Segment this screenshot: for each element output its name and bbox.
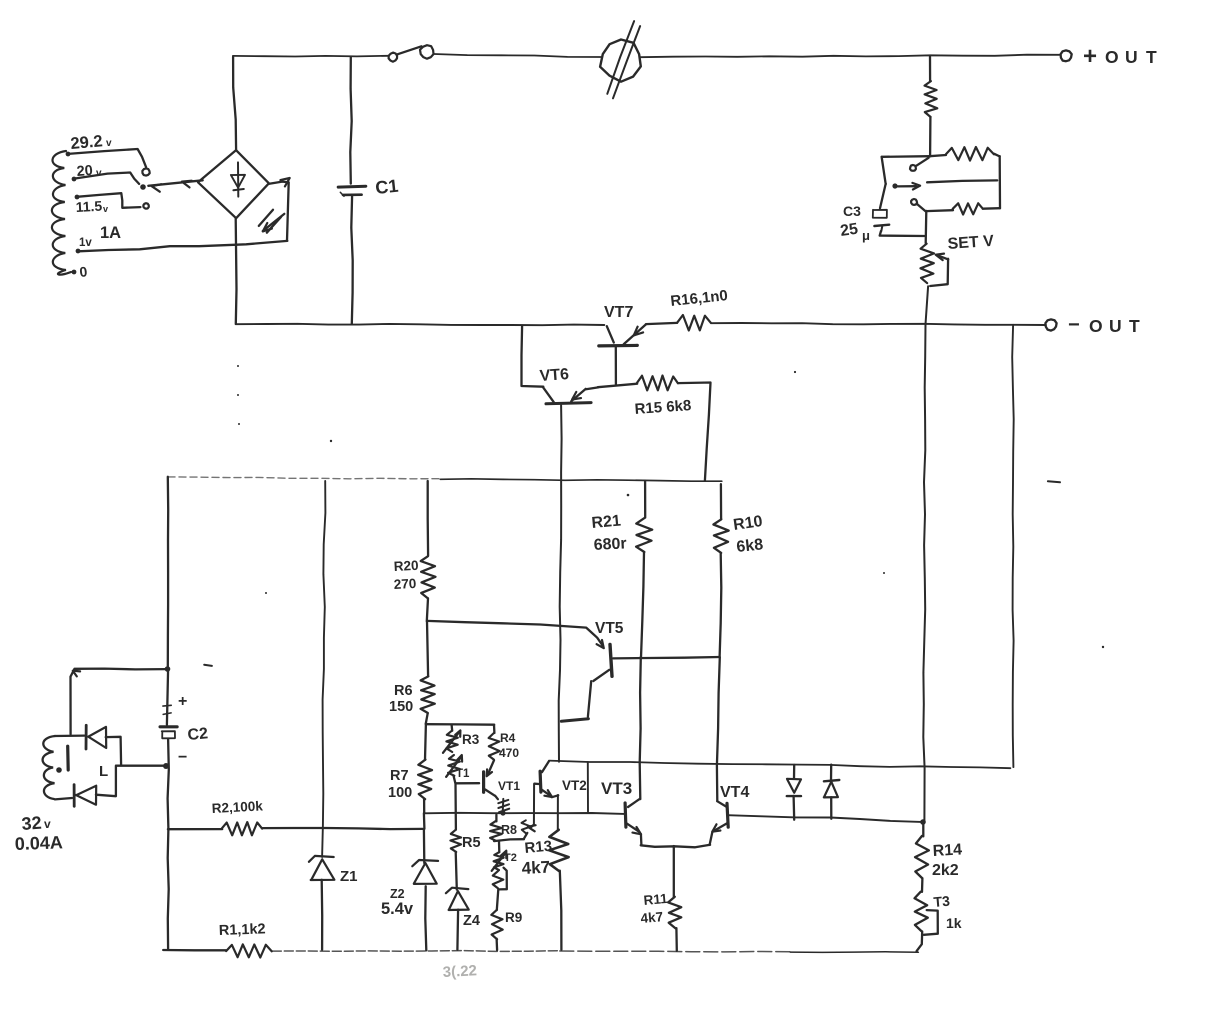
svg-text:Z1: Z1	[340, 868, 358, 885]
label + OUT	[1083, 43, 1157, 70]
svg-text:U: U	[1109, 316, 1122, 336]
zener Z2	[412, 813, 438, 950]
label VT5	[595, 620, 624, 637]
diode D1 (aux)	[55, 725, 121, 765]
label 0.04A	[14, 832, 63, 854]
svg-text:R11: R11	[643, 891, 669, 908]
resistor R15	[637, 376, 678, 391]
wire aux top	[71, 666, 171, 734]
svg-text:20: 20	[76, 163, 93, 180]
wire VT6 collector from -rail	[522, 326, 544, 387]
wire R6 to R3/R4 node	[426, 723, 494, 726]
svg-text:VT4: VT4	[720, 784, 749, 801]
svg-text:100: 100	[388, 785, 412, 801]
label Z4	[463, 913, 480, 929]
terminal -OUT	[1045, 319, 1056, 330]
VT3 base bus (line1)	[424, 813, 624, 814]
svg-text:R14: R14	[932, 841, 962, 860]
wire R21 to VT3 collector	[640, 657, 641, 799]
VT4 base bus to R14	[728, 815, 926, 825]
svg-text:v: v	[44, 817, 51, 831]
label R16 1n0	[670, 287, 729, 310]
capacitor C3	[873, 184, 925, 236]
wire bridge top to +rail	[233, 57, 236, 150]
resistor range-low	[926, 203, 1000, 214]
diode D2 (aux)	[55, 766, 116, 807]
wire R10 to VT4 collector	[717, 657, 720, 801]
R8 wiper to VT2 base	[522, 784, 536, 839]
svg-text:+: +	[1083, 43, 1097, 70]
svg-text:C3: C3	[843, 203, 861, 219]
svg-text:R9: R9	[505, 910, 522, 925]
diode D4	[824, 765, 840, 819]
inductor L winding	[43, 736, 55, 799]
resistor range-high	[930, 147, 1000, 161]
svg-text:0.04A: 0.04A	[14, 832, 63, 854]
svg-text:11.5: 11.5	[75, 198, 102, 215]
wire VT6 base down to VT5 emitter	[559, 405, 562, 761]
resistor R2	[168, 822, 423, 835]
resistor R4	[489, 725, 500, 760]
label R13 4k7	[521, 838, 553, 878]
thermistor R3	[443, 725, 460, 753]
upper bus (dashed faint left part)	[168, 477, 722, 481]
T2 lower section and bracket	[493, 868, 507, 890]
tap 29.2v (dot, wire, contact)	[66, 149, 150, 176]
svg-text:R1,1k2: R1,1k2	[219, 921, 266, 939]
label R11 4k7	[640, 891, 669, 926]
label C1	[374, 176, 399, 198]
label T2	[504, 852, 517, 864]
svg-text:C2: C2	[187, 725, 209, 744]
label VT1	[498, 779, 520, 793]
label R6 150	[389, 683, 413, 715]
diode D3	[787, 765, 801, 820]
AC select arrow marks	[259, 210, 285, 233]
wire selector to SET V	[925, 211, 928, 243]
label Z2 5.4v	[381, 887, 414, 918]
wire T1/R5/VT1-base node	[454, 776, 480, 830]
wire bus to VT3 base bus	[587, 762, 589, 812]
wire bridge AC-left to tap contact (arrows)	[148, 180, 202, 191]
svg-text:−: −	[178, 749, 187, 766]
faint pencil note	[442, 962, 477, 981]
resistor R7	[418, 724, 432, 813]
label C3	[843, 203, 861, 219]
svg-text:T: T	[1146, 47, 1157, 67]
series resistor (top right)	[925, 81, 938, 117]
stray dash	[204, 665, 212, 666]
transistor VT7	[599, 324, 646, 346]
label 11.5v	[75, 198, 108, 215]
rheostat T2	[492, 841, 507, 871]
wire +rail to series resistor	[929, 57, 931, 81]
svg-text:6k8: 6k8	[736, 536, 764, 556]
label SET V	[947, 233, 995, 253]
svg-text:150: 150	[389, 699, 413, 715]
svg-text:VT2: VT2	[562, 778, 587, 793]
resistor R11	[668, 846, 681, 951]
wire R15 to upper bus	[678, 383, 711, 481]
wire bridge bottom to -rail	[235, 218, 238, 323]
transistor VT4	[710, 801, 729, 845]
label VT4	[720, 784, 749, 801]
transistor VT6	[543, 387, 598, 404]
resistor R10	[713, 484, 728, 657]
capacitor C2	[160, 669, 177, 949]
svg-text:v: v	[103, 204, 108, 214]
svg-text:470: 470	[499, 746, 519, 760]
resistor R21	[636, 481, 652, 658]
svg-text:29.2: 29.2	[70, 132, 104, 153]
zener Z4	[446, 888, 469, 950]
svg-text:R7: R7	[390, 768, 409, 784]
tap 0 (dot and hook)	[72, 270, 77, 275]
svg-text:680r: 680r	[593, 535, 627, 554]
svg-text:+: +	[178, 693, 187, 710]
svg-text:Z2: Z2	[390, 887, 405, 901]
tick mark (minus)	[1048, 481, 1060, 482]
label 1A	[100, 224, 121, 242]
wire VT7 base	[615, 347, 617, 385]
svg-text:1v: 1v	[79, 237, 92, 249]
label T1	[456, 768, 470, 780]
common emitter wire	[641, 845, 710, 848]
transistor VT1	[484, 760, 495, 796]
label T3 1k	[933, 893, 962, 931]
zener Z3 scribble	[495, 796, 509, 816]
tap 20v (dot, wire, contact)	[72, 173, 146, 190]
label R14 2k2	[932, 841, 963, 879]
svg-text:R21: R21	[591, 512, 622, 532]
label C2 minus	[178, 749, 187, 766]
-OUT rail right	[711, 323, 1046, 325]
svg-text:R5: R5	[462, 835, 481, 851]
svg-text:v: v	[106, 138, 112, 149]
VT2 collector bus	[549, 761, 1011, 769]
wire bridge AC-right riser with arrow	[269, 178, 289, 241]
svg-text:VT5: VT5	[595, 620, 624, 637]
svg-text:1k: 1k	[946, 915, 962, 931]
svg-text:1A: 1A	[100, 224, 121, 242]
svg-text:3(.22: 3(.22	[442, 962, 477, 981]
label C2	[187, 725, 209, 744]
svg-text:T2: T2	[504, 852, 517, 864]
label 25u	[839, 221, 870, 243]
svg-text:4k7: 4k7	[521, 858, 550, 878]
transistor VT3	[625, 799, 641, 845]
label 0	[79, 263, 89, 280]
svg-text:−: −	[1068, 314, 1080, 336]
label R9	[505, 910, 522, 925]
svg-text:VT1: VT1	[498, 779, 520, 793]
wire VT6 emitter / VT7 base node	[598, 384, 637, 388]
label R10 6k8	[732, 513, 764, 556]
label Z1	[340, 868, 358, 885]
wire SET V wiper to lower net	[923, 286, 928, 820]
label 1v	[79, 237, 92, 249]
svg-text:O: O	[1089, 316, 1103, 336]
wire VT5 collector	[613, 657, 719, 658]
svg-text:R6: R6	[394, 683, 413, 699]
resistor R20	[421, 481, 436, 621]
thermistor T1	[446, 755, 462, 777]
tap 11.5v (dot, wire, contact)	[75, 193, 149, 209]
label C2 plus	[178, 693, 187, 710]
core bar and tap dot	[56, 746, 68, 773]
svg-text:R2,100k: R2,100k	[211, 798, 263, 816]
label R5	[462, 835, 481, 851]
svg-text:32: 32	[21, 813, 42, 834]
wire resistor to selector	[929, 117, 932, 156]
svg-text:L: L	[99, 763, 108, 780]
svg-text:270: 270	[393, 576, 416, 592]
svg-text:R3: R3	[462, 732, 480, 747]
label L	[99, 763, 108, 780]
label 29.2v	[70, 132, 112, 153]
resistor R14	[915, 822, 929, 892]
svg-text:C1: C1	[374, 176, 399, 198]
label R4 470	[499, 731, 519, 760]
svg-text:VT7: VT7	[604, 304, 633, 321]
terminal +OUT	[1061, 50, 1072, 61]
transistor VT2	[534, 761, 558, 797]
svg-text:U: U	[1125, 47, 1138, 67]
label - OUT	[1068, 314, 1140, 336]
label VT2	[562, 778, 587, 793]
label VT3	[601, 779, 632, 798]
+OUT rail segment A	[233, 55, 388, 58]
rheostat T3	[915, 892, 938, 951]
label R20 270	[393, 558, 419, 592]
potentiometer SET V	[921, 244, 949, 286]
svg-text:4k7: 4k7	[640, 909, 664, 926]
svg-text:VT6: VT6	[539, 366, 570, 385]
svg-text:O: O	[1105, 47, 1119, 67]
label R7 100	[388, 768, 412, 801]
resistor R9	[491, 889, 502, 950]
label 32v	[21, 813, 51, 834]
resistor R5	[450, 830, 461, 890]
label R1 1k2	[219, 921, 266, 939]
svg-text:VT3: VT3	[601, 779, 632, 798]
svg-text:Z4: Z4	[463, 913, 480, 929]
resistor R6	[421, 621, 435, 724]
resistor R16	[646, 315, 711, 331]
svg-text:SET V: SET V	[947, 233, 995, 253]
label R8	[501, 823, 517, 837]
switch S1	[389, 45, 434, 62]
fuse F1	[600, 21, 641, 98]
wire left column top	[167, 477, 170, 668]
wire -OUT rail to diode net	[1012, 325, 1014, 767]
label VT7	[604, 304, 633, 321]
label R15 6k8	[634, 397, 692, 418]
svg-text:μ: μ	[862, 228, 870, 243]
bridge rectifier diamond	[198, 150, 269, 218]
range selector switch	[882, 156, 998, 211]
wire to C2 minus node	[116, 763, 169, 769]
resistor R1	[163, 944, 272, 957]
svg-text:R4: R4	[500, 731, 516, 745]
+OUT rail segment B	[434, 54, 601, 57]
wire selector right edge	[999, 156, 1002, 208]
-OUT rail left	[236, 324, 605, 325]
label R21 680r	[591, 512, 627, 554]
svg-text:R8: R8	[501, 823, 517, 837]
label VT6	[539, 366, 570, 385]
label R2 100k	[211, 798, 263, 816]
bottom rail	[272, 951, 918, 953]
zener Z1	[309, 481, 335, 950]
trimmer R8	[490, 815, 524, 841]
label R3	[462, 732, 480, 747]
svg-text:25: 25	[839, 221, 859, 240]
transistor VT5	[561, 644, 612, 721]
+OUT rail segment C	[641, 55, 1060, 58]
capacitor C1	[338, 57, 366, 324]
svg-text:T: T	[1129, 316, 1140, 336]
scan specks	[237, 365, 1104, 648]
svg-text:2k2: 2k2	[932, 862, 959, 879]
transformer T1 secondary winding	[52, 151, 71, 275]
resistor R13	[549, 795, 568, 950]
svg-text:R20: R20	[393, 558, 419, 574]
svg-text:v: v	[96, 168, 102, 179]
wire VT5 base	[427, 621, 604, 648]
svg-text:5.4v: 5.4v	[381, 900, 414, 918]
bridge diode symbol	[231, 162, 245, 196]
svg-text:T3: T3	[933, 893, 951, 910]
tap 1v wire to bridge AC right	[76, 241, 288, 254]
label 20v	[76, 163, 102, 180]
svg-text:T1: T1	[456, 768, 470, 780]
svg-text:R13: R13	[524, 838, 553, 857]
